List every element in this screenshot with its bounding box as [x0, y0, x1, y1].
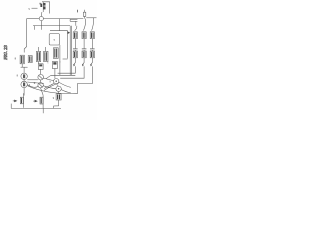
wire left drop — [24, 19, 26, 53]
wire bar to A — [23, 67, 25, 73]
svg-text:5: 5 — [28, 7, 30, 11]
wire F to box9 — [58, 92, 60, 94]
coil L3 — [36, 47, 40, 62]
wire arrow stub — [13, 100, 15, 102]
contact R3 coil — [90, 32, 94, 39]
box B2 — [38, 64, 43, 70]
arrow T2 — [35, 100, 38, 103]
contact R2 top hook — [83, 19, 85, 31]
contact R1 gap — [73, 49, 78, 50]
wire double line A — [69, 26, 71, 75]
tube E — [54, 79, 59, 84]
tube A — [21, 73, 27, 79]
wire cross bus — [51, 74, 75, 76]
wire branch down — [59, 19, 61, 31]
coil L5 — [53, 48, 58, 59]
svg-text:FIG. 23: FIG. 23 — [3, 45, 8, 61]
node N1 — [39, 17, 43, 21]
wire cascade 1 — [58, 66, 76, 73]
tube B — [21, 81, 27, 87]
arc C to E — [44, 78, 54, 81]
contact R2 gap — [82, 49, 87, 50]
wire L1 to A — [21, 64, 23, 67]
contact R3 gap — [90, 49, 95, 50]
wire R3 foot — [91, 58, 93, 65]
wire R2 mid — [83, 39, 85, 52]
contact R3 coil2 — [90, 51, 94, 58]
wire arrow stub2 — [33, 100, 35, 102]
wire D to T2 — [41, 88, 44, 95]
tube D — [38, 83, 43, 88]
capacitor C1 — [70, 19, 77, 26]
arc swoop to corner — [28, 86, 78, 94]
arc E left under — [44, 83, 54, 88]
wire bus left mid2 — [27, 82, 44, 83]
wire double line B — [70, 26, 72, 75]
wire branch horizontal — [50, 31, 68, 59]
arc cross under E — [44, 83, 59, 91]
wire node drop — [40, 21, 42, 30]
arrow R3 — [90, 64, 92, 66]
arrow on branch — [68, 31, 71, 34]
tube F — [56, 86, 61, 91]
wire R2 foot — [82, 58, 84, 65]
contact R1 coil — [73, 32, 77, 39]
arc D to F — [43, 86, 56, 89]
coil L4 — [44, 47, 48, 62]
coil L1 — [20, 55, 24, 64]
arc F right — [61, 90, 70, 93]
wire B2 to C — [40, 69, 42, 74]
wire bus1 left — [27, 18, 40, 20]
bar over A — [21, 66, 28, 68]
contact R3 top hook — [92, 18, 94, 31]
wire A to B stub — [23, 80, 25, 82]
wire bus2 — [33, 25, 70, 27]
wire R3 mid — [91, 39, 93, 52]
wire double line C — [59, 45, 61, 75]
wire cascade 2 — [60, 66, 84, 78]
arc E right — [59, 82, 71, 87]
resistor G1 — [83, 10, 85, 19]
wire leader from label 5 — [32, 7, 38, 9]
wire stub below bus2 — [34, 26, 36, 30]
wire E to F stub — [57, 84, 59, 86]
transistor T1 — [20, 93, 23, 108]
label 7 — [77, 10, 79, 13]
arrow R2 — [82, 64, 84, 66]
relay box U1 — [49, 34, 59, 45]
wire bus1 mid — [43, 18, 83, 20]
wire C to D stub — [40, 80, 42, 83]
contact R2 coil — [82, 32, 86, 39]
wire bottom bus — [11, 107, 61, 109]
box B3 — [52, 62, 57, 69]
coil K9 — [56, 94, 61, 100]
wire B to T1 — [23, 88, 25, 96]
contact R1 coil2 — [73, 51, 77, 58]
wire X1 to node — [40, 12, 43, 17]
wire hook at branch end — [63, 58, 68, 60]
wire L3 to B2 — [38, 62, 40, 64]
wire diag — [46, 75, 51, 78]
wire R1 mid — [74, 39, 76, 52]
wire bottom bus left riser — [10, 104, 12, 109]
wire B3 to E — [54, 69, 56, 79]
transistor T2 — [40, 95, 43, 108]
crystal X1 — [40, 2, 46, 12]
coil L2 — [28, 56, 32, 63]
contact R2 coil2 — [82, 51, 86, 58]
contact R1 top hook — [75, 26, 77, 31]
arrow T1 — [14, 100, 17, 103]
wire top feed — [42, 2, 50, 14]
wire bus1 right — [86, 17, 96, 19]
wire cascade 3 — [77, 66, 92, 93]
arc B to D — [27, 85, 38, 87]
wire bus left mid — [27, 79, 38, 81]
wire box9 down — [54, 100, 59, 108]
wire bottom stub down — [42, 108, 44, 113]
tube C — [38, 74, 44, 80]
wire R1 foot — [74, 58, 76, 65]
arrow R1 — [73, 64, 75, 66]
